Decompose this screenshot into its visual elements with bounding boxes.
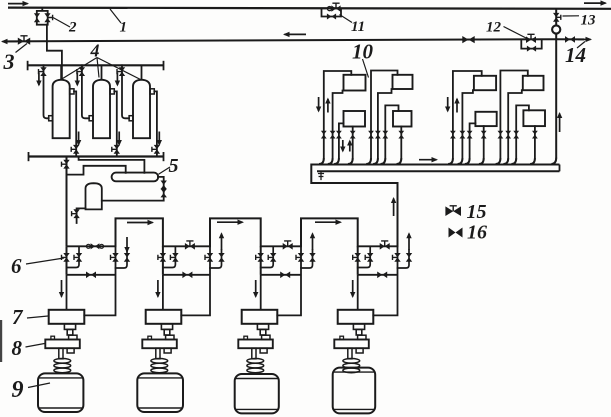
riser foot 8 group B [530,158,535,164]
riser foot 7 group B [511,158,516,164]
milk churn 9 unit 3 [235,374,279,413]
wire milk/vacuum line 2 [7,39,556,41]
pulsator box 7 unit 2 [146,310,182,324]
wire riser 5 group A [371,71,398,159]
valve on side stub cell 1 [124,253,130,262]
wire main vacuum line 1 [8,8,611,9]
stem below box 8 unit 2 [156,348,160,359]
flow arrow in loop 1 [127,220,154,225]
stem below box 8 unit 1 [59,348,63,359]
wire riser 7 group B [516,105,529,158]
wire right riser cell 1 [84,246,115,315]
svg-text:7: 7 [12,305,24,329]
valve on riser 8 group A [398,131,404,139]
wire lower link cell 2 [163,274,210,276]
leader 3 [16,44,28,53]
wire left riser cell 1 down to pump unit [66,246,68,274]
valve on side stub cell 2 [218,253,224,262]
leader 4 to tank 1 [61,58,97,80]
wire top link cell 1 [67,245,116,247]
flow arrow down outlet tank 3 [157,132,162,147]
milk churn 9 unit 2 [137,373,183,412]
valve on top link cell 4 [380,241,390,250]
flow arrow up below LL group A [347,140,352,152]
wire riser 2 group B [462,90,473,158]
stall unit box A-UL [344,75,366,91]
lower valve on receiver drop [161,189,167,198]
stall unit box B-LR [523,110,545,126]
horizontal receiver 5 [112,173,159,182]
flow arrow down supply pump 4 [350,280,355,298]
wire riser 3 group A [339,123,344,158]
fitting bottom-left tank 3 [129,116,133,121]
tank bottom manifold [29,155,164,157]
valve 12 [526,34,536,43]
bellows discs unit 4 [343,359,360,364]
wire riser 4 group A [352,127,354,159]
valve on riser 1 group A [321,131,327,139]
wire riser 6 group B [508,90,522,158]
riser foot 2 group A [328,158,333,164]
stall unit box A-UR [393,75,413,89]
small separator tank [86,183,102,209]
fitting bottom-left tank 2 [89,116,93,121]
flow arrow in loop 2 [217,220,244,225]
wire riser 6 group A [378,89,392,158]
wire side stub cell 1 [116,250,128,268]
flow arrow down service group B [445,97,450,113]
svg-text:9: 9 [12,377,24,403]
stall unit box B-UR [523,76,544,90]
svg-text:11: 11 [351,19,365,35]
riser foot 5 group B [496,158,501,164]
valve on riser 1 group B [450,131,456,139]
wire top link cell 2 [163,245,210,247]
flow arrow down inlet tank 2 [75,73,80,87]
pulsator box 7 unit 3 [242,310,278,324]
wire bypass stub cell 4 [358,246,371,267]
fitting top-right tank 1 [70,89,74,94]
svg-text:6: 6 [11,254,22,278]
riser foot 8 group A [397,158,402,164]
riser foot 2 group B [458,158,463,164]
valve on riser 5 group A [368,131,374,139]
wire top link cell 4 [358,245,398,247]
scan streak left edge [0,320,2,362]
wire lower link cell 3 [261,274,301,276]
riser foot 6 group B [503,158,508,164]
flow arrow middle of line 2 [283,32,306,37]
wire riser 8 group B [534,126,536,158]
valve 6-type on left riser cell 3 [256,253,264,262]
leader 4 to tank 2 [97,58,99,78]
flow arrow up service group B [454,98,459,113]
flow arrow up beside right riser [557,112,562,132]
wire riser 5 group B [500,71,527,159]
wire riser 7 group A [385,105,398,158]
svg-text:13: 13 [581,13,597,29]
svg-text:16: 16 [467,222,487,244]
valve on outlet pipe tank 3 [152,145,160,154]
flow arrow down outlet tank 1 [76,132,81,147]
flow arrow down inlet tank 3 [115,73,120,87]
wire riser 1 group B [453,71,482,158]
stall vacuum manifold [311,164,559,166]
wire riser 1 group A [324,71,352,158]
riser foot 4 group B [479,158,484,164]
vacuum regulator 2 [34,8,53,25]
stem below box 8 unit 3 [252,348,256,359]
legend valve with handle 15 [445,206,461,216]
flow arrow in loop 3 [315,220,342,225]
flow arrow down below LL group A [340,140,345,153]
legend valve 16 [449,228,463,238]
valve 6-type on left riser cell 4 [353,253,361,262]
wire riser 2 group A [333,91,343,159]
wire outlet pipe tank 2 [114,91,117,156]
stall unit box B-UL [474,76,496,90]
fitting bottom-left tank 1 [49,116,53,121]
valve on lower link cell 4 [377,272,387,279]
wire outlet pipe tank 1 [74,91,76,156]
stall unit box B-LL [475,112,496,126]
leader 10 [363,59,369,78]
flow arrow up on return riser [391,197,396,216]
valve on right riser cell 2 [205,253,213,262]
fitting below box 7 unit 3 [257,324,268,330]
leader 7 [27,316,48,318]
leader 8 [26,344,45,348]
vacuum tank 4-3 [133,80,150,139]
valve 11 [331,3,340,12]
wire side stub cell 3 [301,250,313,268]
flow arrow up service group A [325,98,330,113]
leader 14 [577,42,585,49]
valve on side stub cell 3 [309,253,315,262]
valve on lower link cell 1 [86,272,96,279]
valve on riser 8 group B [532,131,538,139]
wire outlet pipe tank 3 [154,91,157,156]
flow arrow right above stall manifold [419,157,438,162]
wire bypass stub cell 1 [67,246,80,267]
wire V1 drop from bottom manifold [66,157,68,247]
svg-text:5: 5 [169,155,179,177]
riser foot 1 group A [319,158,324,164]
valve on bypass stub cell 4 [365,253,373,262]
flow arrow up side stub cell 4 [406,232,411,250]
valve on riser 7 group A [382,131,388,139]
riser foot 7 group A [381,158,386,164]
manifold left end and return line to pump network [311,165,397,247]
wire lower link cell 1 [67,274,116,276]
flow arrow 14 outlet [578,37,592,42]
flow arrow down supply pump 1 [59,280,64,298]
stall unit box A-LR [393,111,412,127]
wire right riser cell 2 [181,246,210,315]
flow arrow down service group A [316,97,321,113]
flow arrow left end of line 2 [1,39,17,44]
wire riser 8 group A [400,127,402,159]
riser foot 1 group B [448,158,453,164]
wire inlet pipe tank 1 [44,65,49,118]
valve on side stub cell 4 [406,253,412,262]
valve on riser 6 group A [375,131,381,139]
valve on V1 drop [62,160,70,169]
leader 13 [563,15,580,17]
leader 12 [504,27,529,40]
valve on separator drain [72,209,80,218]
valve on riser 2 group B [460,131,466,139]
valve on right riser cell 3 [296,253,304,262]
valve on riser 7 group B [513,131,519,139]
flow arrow up side stub cell 3 [310,232,315,250]
svg-text:3: 3 [3,49,15,74]
valve on riser 3 group A [336,131,342,139]
milk churn 9 unit 4 [333,368,376,414]
bellows discs unit 2 [151,359,168,364]
valve on lower link cell 2 [182,272,192,279]
milking unit box 8 unit 4 [334,340,369,349]
wire from regulator 2 down through line 2 to tank manifold [47,25,62,80]
valve 16-type on line 2 [462,36,474,43]
valve at outlet 14 [565,36,575,43]
riser foot 4 group A [348,158,353,164]
wire transfer loop 2 [210,218,261,246]
wire vertical drop at right from line 1 to line 2 [555,9,557,25]
fitting below box 7 unit 1 [64,324,75,330]
wire center riser tank 3 to top manifold [141,65,143,80]
tank top manifold [28,64,164,66]
valve on riser 6 group B [505,131,511,139]
riser foot right column [551,158,556,164]
valve 11 bypass loop [322,9,342,17]
stall unit box A-LL [344,111,366,127]
wire right riser cell 4 [373,246,397,315]
riser foot 3 group B [465,158,470,164]
milking unit box 8 unit 2 [142,340,177,349]
valve on inlet pipe tank 2 [77,67,85,76]
valve 11 bypass valve [327,14,336,20]
leader 2 [53,18,70,28]
flow arrow down inlet tank 1 [36,73,41,87]
wire top link cell 3 [261,245,301,247]
wire side stub cell 4 [398,250,410,268]
drain cock inside manifold end [319,171,324,179]
valve 6-type on left riser cell 2 [158,253,166,262]
moisture trap on right drop [552,25,560,33]
wire right riser cell 3 [277,246,301,315]
valve on top link cell 3 [283,241,293,250]
leader 9 [28,383,50,388]
wire left riser cell 3 down to pump unit [260,246,262,274]
valve on right riser cell 4 [393,253,401,262]
flow arrow down outlet tank 2 [117,132,122,147]
valve 12 bypass loop [521,40,541,49]
wire drain from separator tank [77,208,86,223]
vacuum tank 4-2 [93,80,110,139]
leader 6 [26,258,64,264]
valve 13 [553,13,561,22]
wire inlet pipe tank 2 [82,65,89,118]
valve on inlet pipe tank 1 [39,67,47,76]
fitting top-right tank 2 [110,89,114,94]
flow arrow down supply pump 3 [253,280,258,298]
flow arrow top-left on line 1 [8,1,29,6]
svg-text:15: 15 [467,201,487,223]
wire left riser cell 4 down to pump unit [357,246,359,274]
valve 3 on line 2 [18,36,30,45]
fitting below box 7 unit 4 [353,324,364,330]
riser foot 3 group A [334,158,339,164]
valve on outlet pipe tank 2 [112,145,120,154]
milk churn 9 unit 1 [38,373,83,412]
flow arrow up side stub cell 2 [219,232,224,250]
valve on right riser cell 1 [111,253,119,262]
wire center riser tank 1 to top manifold [60,65,62,80]
wire step pipe from bottom manifold to receiver 5 [79,157,145,173]
wire lower link cell 4 [358,274,398,276]
wire transfer loop 1 [116,218,163,246]
upper valve on receiver drop [161,181,167,190]
riser foot 6 group A [373,158,378,164]
valve on top link cell 1 [86,243,103,249]
leader 1 [110,9,121,23]
valve on top link cell 2 [185,241,195,250]
wire riser from line 2 down to stall manifold [555,39,557,158]
wire riser 4 group B [483,126,485,158]
leader 4 to tank 3 [97,58,141,80]
wire center riser tank 2 to top manifold [101,65,103,80]
leader 11 [340,15,353,23]
bellows discs unit 3 [247,359,264,364]
fitting top-right tank 3 [150,89,154,94]
vacuum tank 4-1 [53,80,70,139]
wire transfer loop 3 [301,218,358,246]
valve on riser 2 group A [330,131,336,139]
wire left riser cell 2 down to pump unit [162,246,164,274]
bellows discs unit 1 [54,359,71,364]
valve on riser 5 group B [498,131,504,139]
valve on riser 4 group A [350,131,356,139]
wire step pipe from V1 to receiver 5 [67,166,126,175]
svg-text:8: 8 [12,336,23,360]
valve on lower link cell 3 [280,272,290,279]
valve on bypass stub cell 1 [74,253,82,262]
wire riser 3 group B [470,123,476,158]
valve 6-type on left riser cell 1 [62,253,70,262]
flow arrow down side stub cell 1 [124,237,129,253]
svg-text:12: 12 [486,20,502,36]
valve on outlet pipe tank 1 [71,145,79,154]
wire line 2 extension to outlet 14 [556,38,584,40]
flow arrow top-right on line 1 [584,0,607,5]
pulsator box 7 unit 4 [338,310,374,324]
wire bypass stub cell 3 [261,246,274,267]
flow arrow down supply pump 2 [155,280,160,298]
milking unit box 8 unit 1 [45,340,80,349]
wire bypass stub cell 2 [163,246,176,267]
valve on bypass stub cell 2 [170,253,178,262]
valve on bypass stub cell 3 [268,253,276,262]
svg-text:14: 14 [565,43,586,67]
valve on riser 3 group B [467,131,473,139]
wire from receiver 5 right end down [102,177,164,201]
pulsator box 7 unit 1 [49,310,85,324]
riser foot 5 group A [366,158,371,164]
milking unit box 8 unit 3 [238,340,272,349]
wire inlet pipe tank 3 [122,65,129,118]
valve 12 bypass valve [527,46,536,52]
valve on inlet pipe tank 3 [117,67,125,76]
leader 5 [159,167,171,174]
stem below box 8 unit 4 [348,348,352,359]
wire side stub cell 2 [210,250,222,268]
fitting below box 7 unit 2 [161,324,172,330]
svg-text:2: 2 [68,20,77,36]
valve on riser 4 group B [481,131,487,139]
